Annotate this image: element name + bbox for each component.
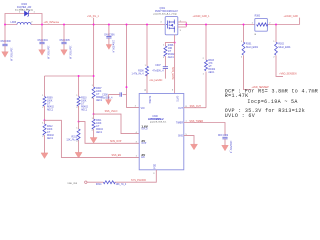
svg-text:10R: 10R <box>168 48 173 50</box>
ground for C304 <box>39 50 46 56</box>
wire divider feeder <box>45 25 94 77</box>
svg-text:SNS_OUT: SNS_OUT <box>190 105 202 108</box>
svg-text:Q301: Q301 <box>160 8 166 10</box>
node gate junction <box>174 42 176 44</box>
node SNS_GATE label <box>171 67 174 80</box>
capacitor C307 <box>152 65 168 79</box>
svg-text:SNS_GATE: SNS_GATE <box>171 67 174 80</box>
node SYS_PGOOD label <box>131 179 146 182</box>
svg-text:100n/50V_4: 100n/50V_4 <box>229 141 231 154</box>
resistor R303 <box>203 25 216 108</box>
ground below R312 <box>41 153 48 159</box>
svg-text:AEC1: AEC1 <box>168 56 175 59</box>
resistor R308 <box>131 25 148 94</box>
svg-text:100K: 100K <box>81 100 87 102</box>
svg-text:DNI C300: DNI C300 <box>1 41 12 43</box>
note text block <box>225 89 318 119</box>
ground for C309 <box>222 145 229 151</box>
resistor R300 sense <box>252 16 272 37</box>
wire R307 top <box>93 76 95 87</box>
svg-text:10uF/50V_M: 10uF/50V_M <box>9 48 11 61</box>
svg-text:VIN: VIN <box>141 108 145 110</box>
resistor R301 <box>242 25 259 90</box>
node sns_kelv label <box>150 79 163 82</box>
svg-text:R302: R302 <box>278 44 284 46</box>
svg-text:UVLO : 6V: UVLO : 6V <box>225 113 255 119</box>
node bus junction dots <box>4 24 277 77</box>
svg-text:SNS_EN: SNS_EN <box>112 154 122 157</box>
svg-text:power8_9x9_8-1: power8_9x9_8-1 <box>150 121 167 124</box>
Q301 right pin bracket <box>178 20 187 32</box>
svg-text:R311: R311 <box>96 120 102 122</box>
wire main input bus <box>5 24 300 26</box>
svg-text:AEC1: AEC1 <box>208 71 215 74</box>
op-amp U1 hot swap controller U300 <box>135 90 188 175</box>
svg-text:+VA_FIL_1: +VA_FIL_1 <box>87 15 100 18</box>
svg-text:R0402: R0402 <box>208 69 215 71</box>
svg-text:C307: C307 <box>155 65 161 67</box>
ground for C308 <box>106 100 112 105</box>
ground for C300 <box>2 52 9 58</box>
ground below R311 <box>90 138 97 144</box>
svg-text:R0402: R0402 <box>168 54 175 56</box>
svg-text:47n/50V_4: 47n/50V_4 <box>152 71 164 73</box>
node SNS_UVLO wire <box>94 110 140 134</box>
svg-text:0.1u/50V_4: 0.1u/50V_4 <box>101 97 113 99</box>
svg-text:1.47k_/%_4: 1.47k_/%_4 <box>131 73 144 75</box>
svg-text:R314: R314 <box>96 184 102 186</box>
resistor R309 <box>43 76 54 120</box>
svg-text:VDD_3V3: VDD_3V3 <box>67 183 78 185</box>
svg-text:AEC1: AEC1 <box>47 108 54 111</box>
svg-text:SNS_TIMER: SNS_TIMER <box>189 120 203 123</box>
svg-text:100K: 100K <box>96 123 102 125</box>
node R310 tap <box>78 121 80 123</box>
wire Q301 gate stub <box>174 35 176 43</box>
svg-text:ons_kelvNC: ons_kelvNC <box>150 79 163 82</box>
svg-text:SNS_OVP: SNS_OVP <box>110 140 122 143</box>
capacitor C309 <box>218 135 231 153</box>
resistor R306 <box>164 43 175 67</box>
svg-text:100K: 100K <box>96 91 102 93</box>
svg-text:47K: 47K <box>208 63 213 65</box>
svg-text:R0402: R0402 <box>96 129 103 131</box>
svg-text:SENSE: SENSE <box>148 96 150 104</box>
svg-text:SYS_PGOOD: SYS_PGOOD <box>131 179 146 182</box>
node +VA_FIL_1 label <box>87 15 100 24</box>
svg-text:LM5069MM-2: LM5069MM-2 <box>148 118 164 121</box>
capacitor C308 <box>101 92 127 100</box>
ground for C305 <box>61 50 68 56</box>
svg-text:GATE: GATE <box>176 96 179 103</box>
svg-text:1/T: 1/T <box>96 94 100 96</box>
node +VA_IN/SenseIn label <box>44 21 60 24</box>
svg-text:DNI C309: DNI C309 <box>218 135 229 137</box>
capacitor C304 <box>38 25 49 59</box>
svg-text:EN: EN <box>141 157 145 159</box>
svg-text:1/T: 1/T <box>168 51 172 53</box>
node R307 tap <box>93 113 95 115</box>
svg-text:Short_E001: Short_E001 <box>278 46 291 49</box>
svg-text:D1QHE3_A/R: D1QHE3_A/R <box>17 6 32 9</box>
svg-text:R0402: R0402 <box>47 106 54 108</box>
wire VIN feed <box>127 25 140 108</box>
resistor R311 <box>92 114 103 138</box>
wire gate to IC GATE pin <box>174 43 176 94</box>
svg-text:1/T: 1/T <box>81 103 85 105</box>
ground for C306 <box>106 45 112 50</box>
node +VAD_SENSEP label <box>252 86 270 89</box>
resistor R312 <box>43 120 54 154</box>
node VDD_3V3 terminal <box>67 181 87 185</box>
svg-text:R0402: R0402 <box>81 106 88 108</box>
inductor L300 <box>11 22 34 25</box>
svg-text:R308: R308 <box>138 70 144 72</box>
svg-text:R303: R303 <box>208 60 214 62</box>
svg-text:R312: R312 <box>47 126 53 128</box>
node SNS_EN wire <box>45 120 140 157</box>
svg-text:D300: D300 <box>22 4 28 6</box>
svg-text:1/T: 1/T <box>208 66 212 68</box>
svg-text:OUT: OUT <box>178 108 183 110</box>
svg-text:R300: R300 <box>255 16 261 18</box>
svg-text:C308: C308 <box>102 95 108 97</box>
wire TVS bridge loop <box>5 14 42 25</box>
svg-text:R307: R307 <box>96 88 102 90</box>
svg-text:R0402: R0402 <box>47 135 54 137</box>
svg-text:OVP: OVP <box>141 143 146 145</box>
svg-text:R=1.47K: R=1.47K <box>225 93 248 99</box>
node pin ticks <box>42 41 275 143</box>
node R309 tap <box>44 119 46 121</box>
svg-text:R313: R313 <box>72 136 78 138</box>
svg-text:R310: R310 <box>81 97 87 99</box>
svg-text:10K_/%_4: 10K_/%_4 <box>116 184 127 186</box>
node VIN junction <box>126 86 128 88</box>
svg-text:Short_E001: Short_E001 <box>246 46 259 49</box>
node +LOAD_CAR label <box>284 15 300 25</box>
capacitor C300 <box>1 25 12 61</box>
svg-text:R306: R306 <box>168 45 174 47</box>
svg-text:R301: R301 <box>246 44 252 46</box>
svg-text:AEC1: AEC1 <box>81 108 88 111</box>
svg-text:+LOAD_CAR: +LOAD_CAR <box>284 15 299 18</box>
svg-text:SNS_UVLO: SNS_UVLO <box>105 110 118 113</box>
resistor R302 <box>275 25 292 77</box>
node SNS_OVP wire <box>79 122 140 144</box>
svg-text:10uF/50V_M: 10uF/50V_M <box>68 46 70 59</box>
svg-text:AEC1: AEC1 <box>96 131 103 134</box>
svg-text:+LOAD_CAR_1: +LOAD_CAR_1 <box>193 15 211 18</box>
node +LOAD_CAR_1 label <box>193 15 211 18</box>
wire GND pin <box>184 136 194 145</box>
wire PGD pin <box>87 170 156 182</box>
capacitor C306 <box>104 25 115 54</box>
ground below R313 <box>75 152 82 158</box>
svg-text:+VA_IN/Sense: +VA_IN/Sense <box>44 21 60 24</box>
capacitor C305 <box>60 25 71 59</box>
node SNS_TIMER wire <box>184 120 225 136</box>
svg-text:+VAD_SENSEN: +VAD_SENSEN <box>279 73 297 76</box>
resistor R307 <box>92 87 103 114</box>
resistor R310 <box>77 76 88 122</box>
diode D300 TVS <box>15 4 36 17</box>
svg-text:AEC1: AEC1 <box>47 137 54 140</box>
svg-text:R309: R309 <box>47 97 53 99</box>
svg-text:100K: 100K <box>47 129 53 131</box>
ground for U300 GND <box>191 144 198 150</box>
svg-text:10uF/50V_M: 10uF/50V_M <box>46 46 48 59</box>
svg-text:TIMER: TIMER <box>176 123 183 125</box>
node SNS_OUT wire <box>184 105 206 108</box>
resistor R313 <box>66 122 80 153</box>
svg-text:GND: GND <box>178 135 183 137</box>
node +VAD_SENSEN label <box>279 73 297 76</box>
svg-text:Iocp=6.19A ~ 5A: Iocp=6.19A ~ 5A <box>247 99 297 105</box>
svg-text:PGD: PGD <box>154 163 156 168</box>
svg-text:UVLO: UVLO <box>141 129 147 131</box>
svg-text:100n/50V_4: 100n/50V_4 <box>111 40 113 53</box>
svg-text:100K: 100K <box>47 100 53 102</box>
transistor Q2 Q301 MOSFET <box>154 8 179 35</box>
svg-text:power8_5x6_A-1_2T-5p: power8_5x6_A-1_2T-5p <box>154 12 178 15</box>
svg-text:1/T: 1/T <box>96 126 100 128</box>
resistor R314 <box>96 181 127 186</box>
